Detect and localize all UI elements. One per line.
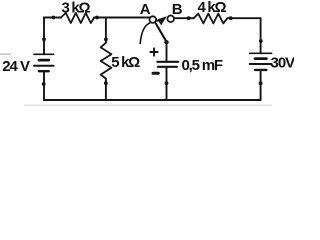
switch terminal A circle bbox=[150, 16, 157, 23]
switch pivot node dot bbox=[164, 40, 168, 44]
capacitor C1 bottom plate bbox=[158, 66, 177, 68]
node dot R3 left terminal bbox=[187, 16, 191, 20]
svg-text:4 kΩ: 4 kΩ bbox=[198, 0, 227, 16]
plus sign polarity bbox=[150, 48, 157, 55]
wire C1 bottom to bottom rail bbox=[166, 68, 168, 100]
svg-text:3 kΩ: 3 kΩ bbox=[62, 0, 91, 16]
minus sign polarity bbox=[153, 72, 158, 75]
svg-text:B: B bbox=[172, 1, 183, 18]
wire R3 to top-right corner bbox=[227, 17, 260, 19]
resistor R1 3kOhm zigzag bbox=[61, 13, 94, 23]
wire right rail down to battery V2 bbox=[260, 18, 262, 53]
switch motion arc from pivot sweeping toward B bbox=[140, 21, 158, 44]
node dot R2 top terminal bbox=[104, 38, 108, 42]
wire bottom rail bbox=[44, 99, 261, 101]
capacitor C1 top plate bbox=[157, 61, 178, 63]
wire switch pivot down to capacitor C1 bbox=[166, 42, 168, 61]
scan artifact faint streak left edge bbox=[0, 53, 11, 55]
node dot on right rail bbox=[259, 39, 263, 43]
svg-text:24 V: 24 V bbox=[2, 58, 30, 75]
node dot on left rail bbox=[42, 37, 46, 41]
wire right rail battery to bottom corner bbox=[260, 70, 262, 100]
switch motion arrowhead pointing at B bbox=[157, 16, 167, 25]
svg-text:30V: 30V bbox=[271, 55, 295, 72]
node dot R3 right terminal bbox=[229, 16, 233, 20]
svg-text:5 kΩ: 5 kΩ bbox=[111, 54, 140, 71]
wire from R1 to switch terminal A bbox=[94, 17, 149, 19]
wire branch down to R2 bbox=[105, 18, 107, 43]
node dot R1 right terminal bbox=[95, 16, 99, 20]
battery V1 24V plates bbox=[34, 54, 54, 71]
node dot R1 left terminal bbox=[52, 16, 56, 20]
wire left rail from top corner down to battery bbox=[43, 18, 45, 55]
switch terminal B circle bbox=[167, 15, 174, 22]
node dot R2 bottom terminal bbox=[104, 81, 108, 85]
switch blade from pivot to A bbox=[156, 24, 167, 42]
node dot C1 bottom terminal bbox=[165, 81, 169, 85]
scan artifact faint band under bottom rail bbox=[24, 104, 272, 106]
battery V2 30V plates bbox=[250, 53, 272, 70]
wire from B to R3 bbox=[174, 17, 193, 19]
wire top-left horizontal bbox=[44, 17, 61, 19]
wire R2 bottom to bottom rail bbox=[105, 79, 107, 100]
resistor R2 5kOhm vertical zigzag bbox=[101, 43, 112, 79]
resistor R3 4kOhm zigzag bbox=[194, 14, 228, 24]
node dot lower left rail bbox=[42, 82, 46, 86]
svg-text:0,5 mF: 0,5 mF bbox=[182, 57, 223, 74]
node dot lower right rail bbox=[259, 81, 263, 85]
wire left rail battery to bottom corner bbox=[43, 71, 45, 100]
svg-text:A: A bbox=[140, 1, 151, 18]
